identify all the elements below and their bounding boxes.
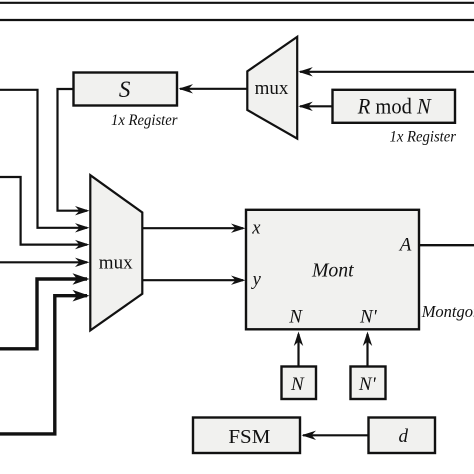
wire mux U1 to Mont x input bbox=[142, 224, 245, 233]
wire (bus) from left edge to mux U1 input 6 bbox=[0, 290, 90, 434]
register R mod N bbox=[333, 90, 456, 123]
svg-text:R mod N: R mod N bbox=[357, 94, 432, 119]
svg-text:S: S bbox=[119, 77, 131, 102]
wire register N' to Mont bbox=[363, 332, 372, 367]
top bus line 1 bbox=[0, 2, 474, 4]
wire from S to mux U1 input 1 bbox=[58, 89, 90, 215]
wire d to FSM bbox=[302, 431, 369, 440]
wire from left edge to mux U1 input 4 bbox=[0, 258, 90, 267]
svg-text:N: N bbox=[290, 374, 305, 395]
block Mont (Montgomery multiplier) bbox=[246, 210, 419, 329]
svg-text:y: y bbox=[251, 270, 262, 290]
register N bbox=[282, 367, 317, 400]
svg-text:FSM: FSM bbox=[228, 426, 270, 448]
wire mux U2 output to register S bbox=[179, 84, 248, 93]
svg-text:N': N' bbox=[358, 374, 377, 395]
svg-text:N': N' bbox=[359, 307, 378, 328]
svg-text:mux: mux bbox=[255, 78, 289, 99]
wire from left edge to mux U1 input 3 bbox=[0, 177, 90, 249]
wire Mont A output bbox=[419, 244, 474, 246]
wire mux U1 to Mont y input bbox=[142, 276, 245, 285]
wire feedback into mux U2 bbox=[298, 67, 474, 76]
register d bbox=[369, 418, 436, 454]
svg-text:A: A bbox=[398, 235, 412, 256]
block FSM bbox=[193, 418, 300, 454]
svg-text:mux: mux bbox=[99, 253, 133, 274]
svg-text:Montgomery: Montgomery bbox=[421, 302, 474, 321]
wire R mod N to mux U2 bbox=[298, 102, 332, 111]
top bus line 2 bbox=[0, 19, 474, 21]
mux U1 bbox=[90, 175, 142, 330]
register N' bbox=[351, 367, 386, 400]
register S bbox=[74, 73, 178, 106]
wire from left edge to mux U1 input 2 bbox=[0, 90, 90, 233]
mux U2 bbox=[247, 37, 297, 139]
wire register N to Mont bbox=[294, 332, 303, 367]
wire (bus) from left edge to mux U1 input 5 bbox=[0, 273, 90, 349]
svg-text:x: x bbox=[251, 219, 261, 239]
svg-text:Mont: Mont bbox=[311, 260, 354, 282]
svg-text:N: N bbox=[288, 307, 303, 328]
svg-text:1x Register: 1x Register bbox=[111, 112, 178, 129]
svg-text:1x Register: 1x Register bbox=[390, 129, 457, 146]
svg-text:d: d bbox=[398, 426, 408, 447]
